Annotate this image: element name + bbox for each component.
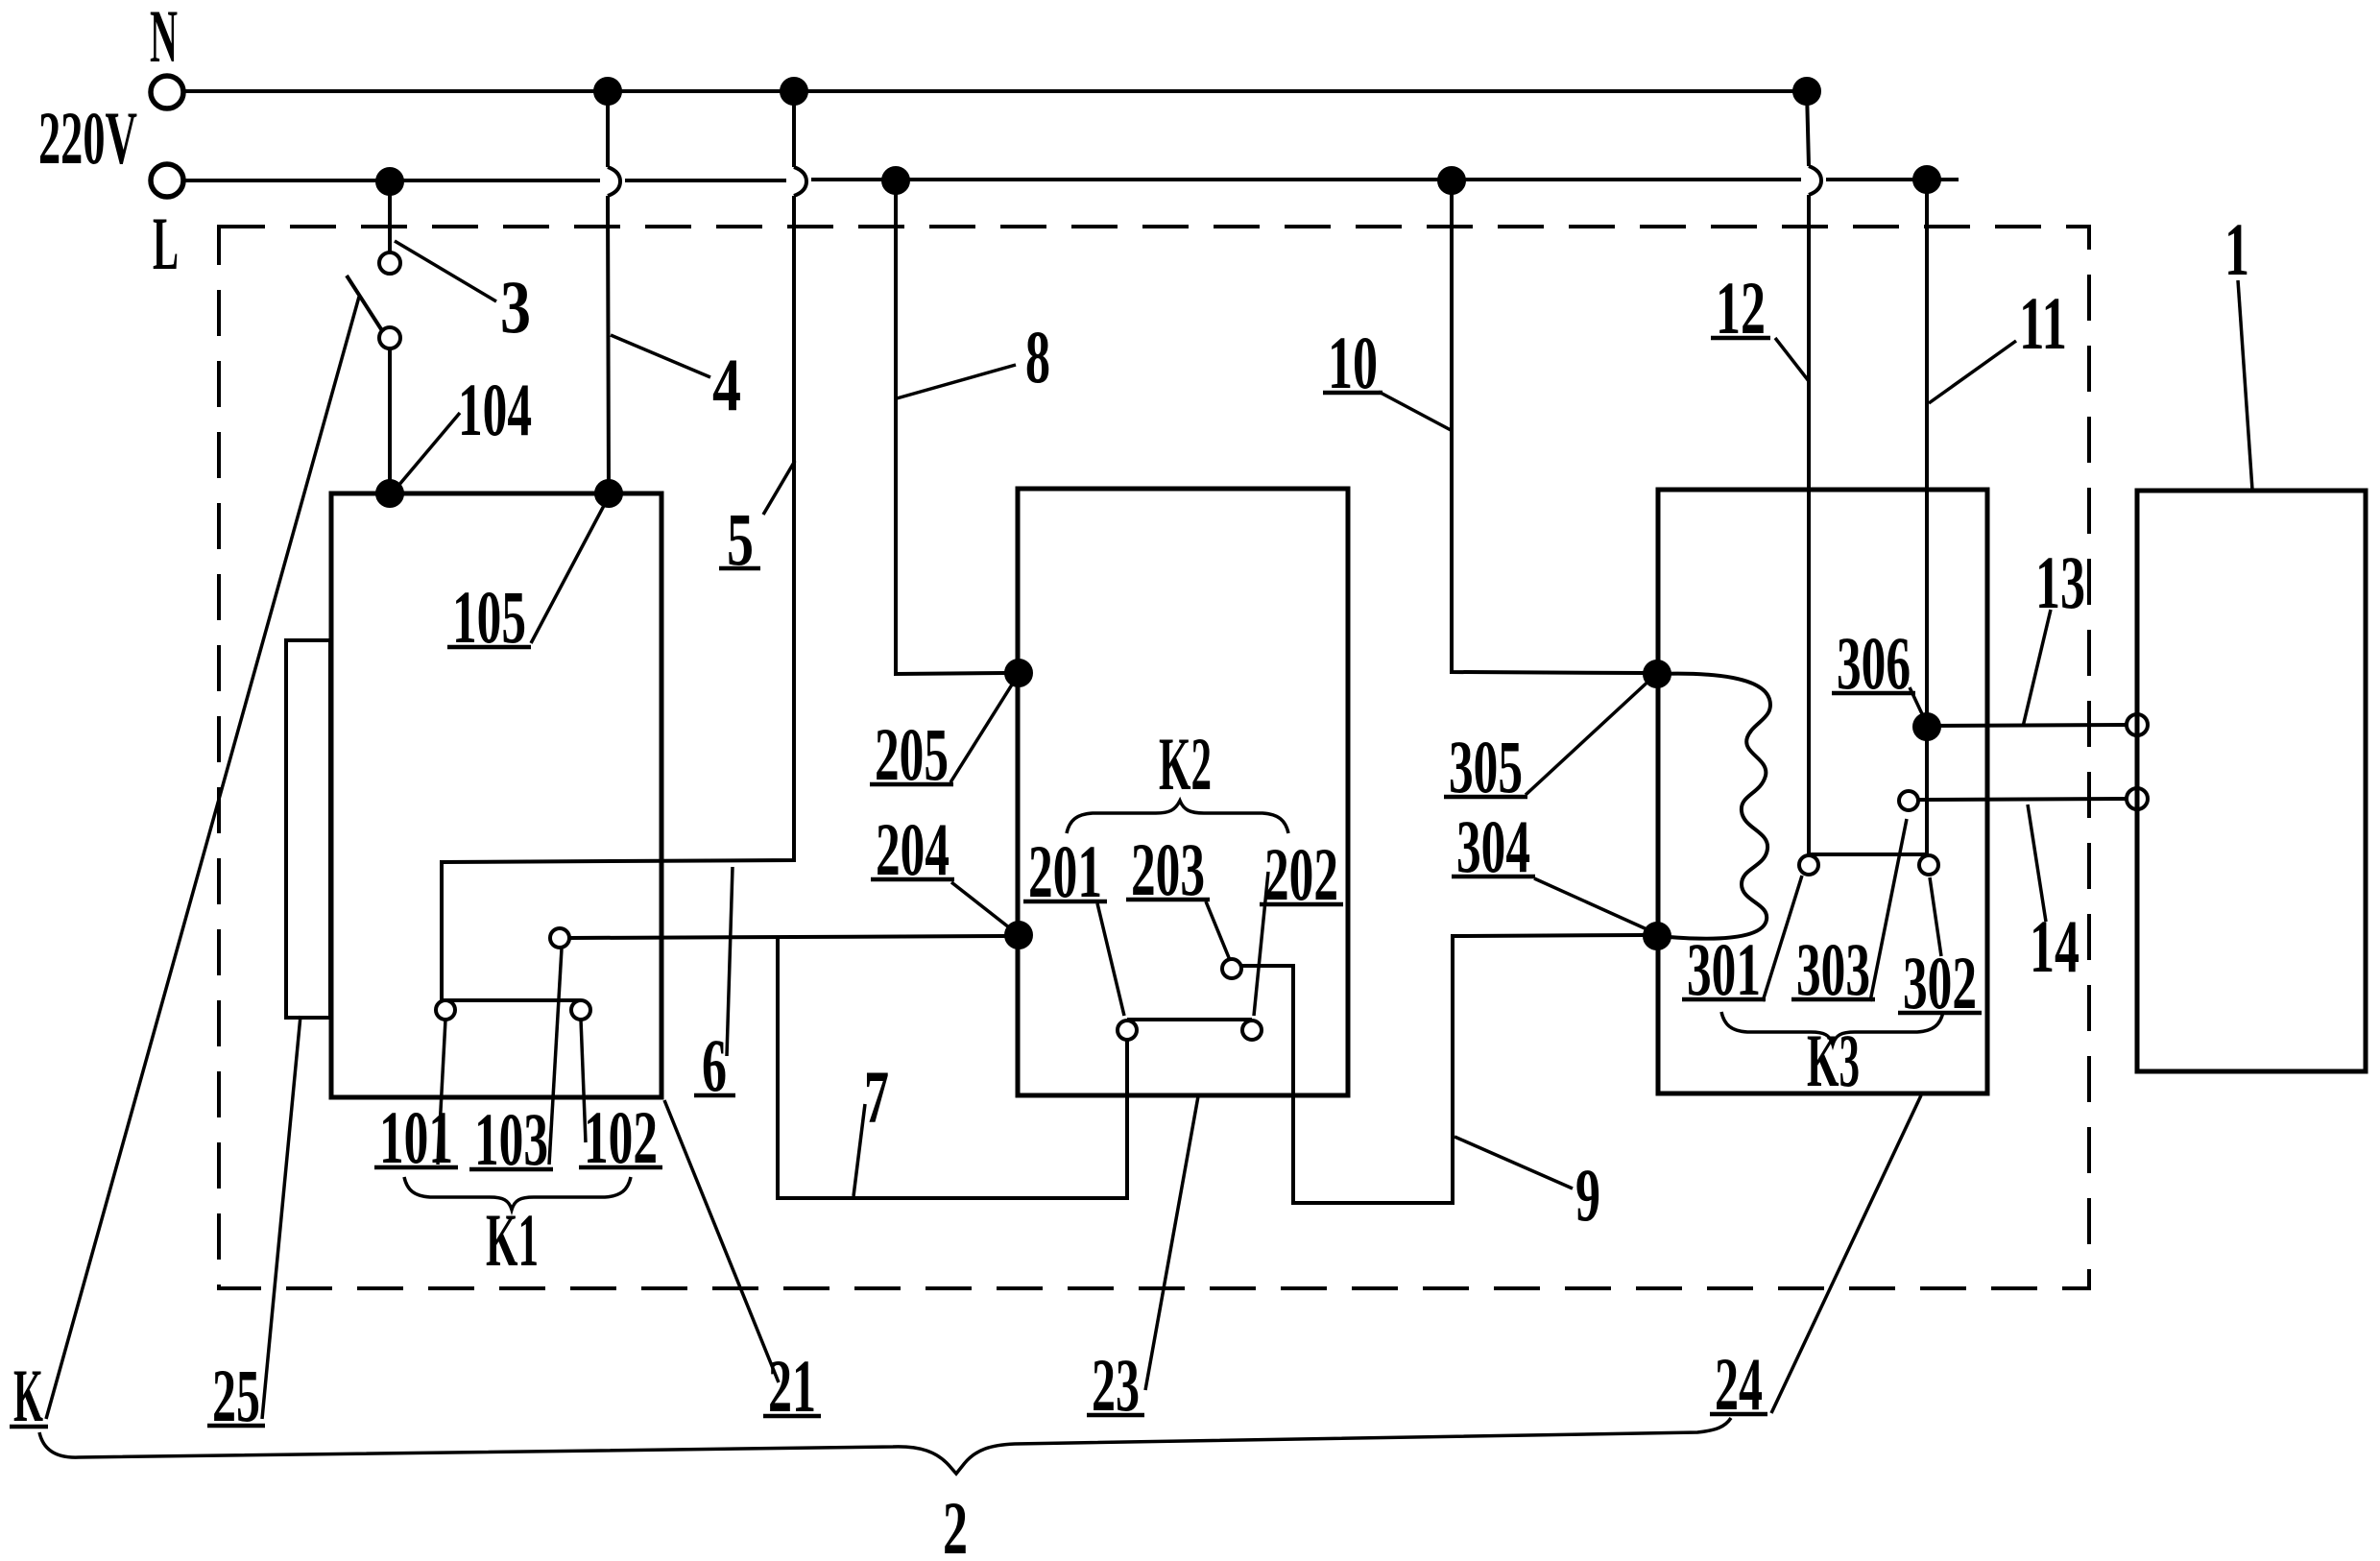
wire 4 [608,91,620,493]
svg-text:8: 8 [1025,315,1050,398]
wire 10 [1452,180,1645,673]
leader 101 [438,1020,445,1165]
svg-text:N: N [150,0,178,78]
svg-text:1: 1 [2224,207,2249,291]
wire 9 [1241,935,1645,1203]
leader 202 [1254,872,1268,1016]
contact 301 [1799,855,1818,875]
underline 5 [719,566,760,571]
leader 105 [531,500,607,643]
wire 12 [1807,91,1821,854]
svg-text:14: 14 [2030,904,2079,988]
wire N bus [182,89,1807,93]
underline 201 [1023,900,1107,904]
coil K3 [1657,674,1770,939]
leader 301 [1763,876,1802,1001]
leader 11 [1929,341,2016,403]
enclosure 2 dashed box [219,227,2089,1288]
leader 304 [1534,878,1653,932]
wire 13 [1927,725,2127,726]
leader 103 [549,949,562,1165]
leader 205 [950,682,1014,782]
leader 4 [611,335,710,377]
brace 2 [39,1418,1731,1474]
svg-text:9: 9 [1575,1153,1600,1237]
leader 302 [1930,877,1941,956]
underline 304 [1452,875,1535,879]
underline 306 [1832,691,1915,696]
leader 24 [1771,1095,1921,1413]
leader 306 [1910,687,1925,720]
node L-8 [883,168,908,193]
node 105 [596,481,621,506]
component 1 box [2137,491,2366,1071]
leader 21 [664,1100,779,1382]
leader 7 [853,1104,865,1196]
node N-12 [1794,79,1819,104]
brace K3 [1721,1012,1943,1045]
underline 12 [1711,336,1770,341]
svg-text:7: 7 [864,1055,889,1139]
svg-text:220V: 220V [38,96,137,180]
svg-text:K2: K2 [1159,722,1212,805]
terminal N [151,76,183,108]
underline 301 [1682,997,1766,1002]
node 205 [1006,660,1031,685]
wire 11 [1925,180,1929,855]
leader 5 [763,461,795,515]
terminal 13 [2127,714,2148,735]
wire 14 [1918,799,2127,800]
underline 103 [469,1167,553,1172]
underline 10 [1323,391,1382,396]
relay box K3 [1658,490,1987,1093]
leader lines [46,241,2252,1419]
terminal 14 [2127,788,2148,809]
underline 23 [1087,1413,1144,1418]
leader 6 [727,867,733,1056]
label underlines [10,338,1982,1427]
contact 303 [1899,791,1918,810]
node 104 [377,481,402,506]
terminal L [151,164,183,197]
underline 25 [207,1424,265,1429]
leader 1 [2238,280,2252,490]
leader 3 [395,241,496,301]
switch K [388,181,392,252]
contact 103 [550,928,569,948]
underline 204 [871,877,954,882]
svg-text:K1: K1 [486,1198,539,1282]
node L-11 [1914,167,1939,192]
leader 14 [2028,805,2046,922]
leader 13 [2023,610,2051,727]
node L-3 [377,169,402,194]
underline 24 [1710,1412,1767,1417]
wire blade K2 [1127,1018,1252,1021]
leader 8 [897,365,1016,398]
leader 23 [1145,1096,1198,1390]
underline 302 [1898,1011,1982,1016]
wire 5 [442,91,806,1000]
wire blade K3 [1809,853,1929,856]
underline 205 [870,782,953,787]
contact 202 [1242,1021,1262,1040]
svg-text:L: L [153,202,179,285]
leader 201 [1097,903,1124,1016]
node 306 [1914,714,1939,739]
contact 201 [1118,1021,1137,1040]
leader 10 [1379,392,1453,431]
underline 101 [374,1165,458,1170]
leader 305 [1526,677,1653,795]
leader 104 [393,413,460,492]
contact 101 [436,1000,455,1020]
leader 25 [262,1016,301,1419]
relay box K1 [331,493,661,1097]
svg-text:3: 3 [500,265,531,348]
underline 102 [579,1165,662,1170]
brace K1 [404,1177,631,1210]
brace K2 [1067,801,1288,833]
underline 203 [1126,898,1210,902]
contact 102 [571,1000,590,1020]
underline 21 [763,1414,821,1419]
node 304 [1645,924,1670,949]
leader 9 [1454,1137,1573,1189]
svg-text:K3: K3 [1807,1019,1860,1102]
leader 204 [951,882,1014,931]
node 204 [1006,923,1031,948]
contact 302 [1919,855,1938,875]
wire blade K1 [442,998,581,1002]
underline 105 [447,645,531,650]
underline 303 [1791,997,1875,1002]
contact 203 [1222,959,1241,978]
wire 7 [778,937,1127,1198]
relay box K2 [1018,489,1348,1095]
svg-text:104: 104 [458,368,532,451]
underline 6 [694,1093,735,1098]
underline 202 [1260,902,1343,907]
underline K [10,1425,48,1429]
leader 303 [1870,819,1907,1001]
wire L bus [182,180,1959,180]
wire 8 [896,180,1006,674]
svg-text:13: 13 [2035,540,2085,624]
leader 12 [1775,338,1809,381]
wire 103 to 204 [569,936,1006,938]
svg-text:4: 4 [712,343,741,426]
node N-5 [781,79,806,104]
svg-text:11: 11 [2019,281,2067,365]
braces [39,801,1943,1474]
node 305 [1645,661,1670,686]
svg-text:2: 2 [943,1486,968,1561]
node N-4 [595,79,620,104]
leader 102 [581,1020,586,1142]
leader K [46,297,359,1419]
underline 305 [1444,795,1527,800]
component 25 box [286,640,330,1018]
leader 203 [1206,901,1230,960]
node L-10 [1439,168,1464,193]
